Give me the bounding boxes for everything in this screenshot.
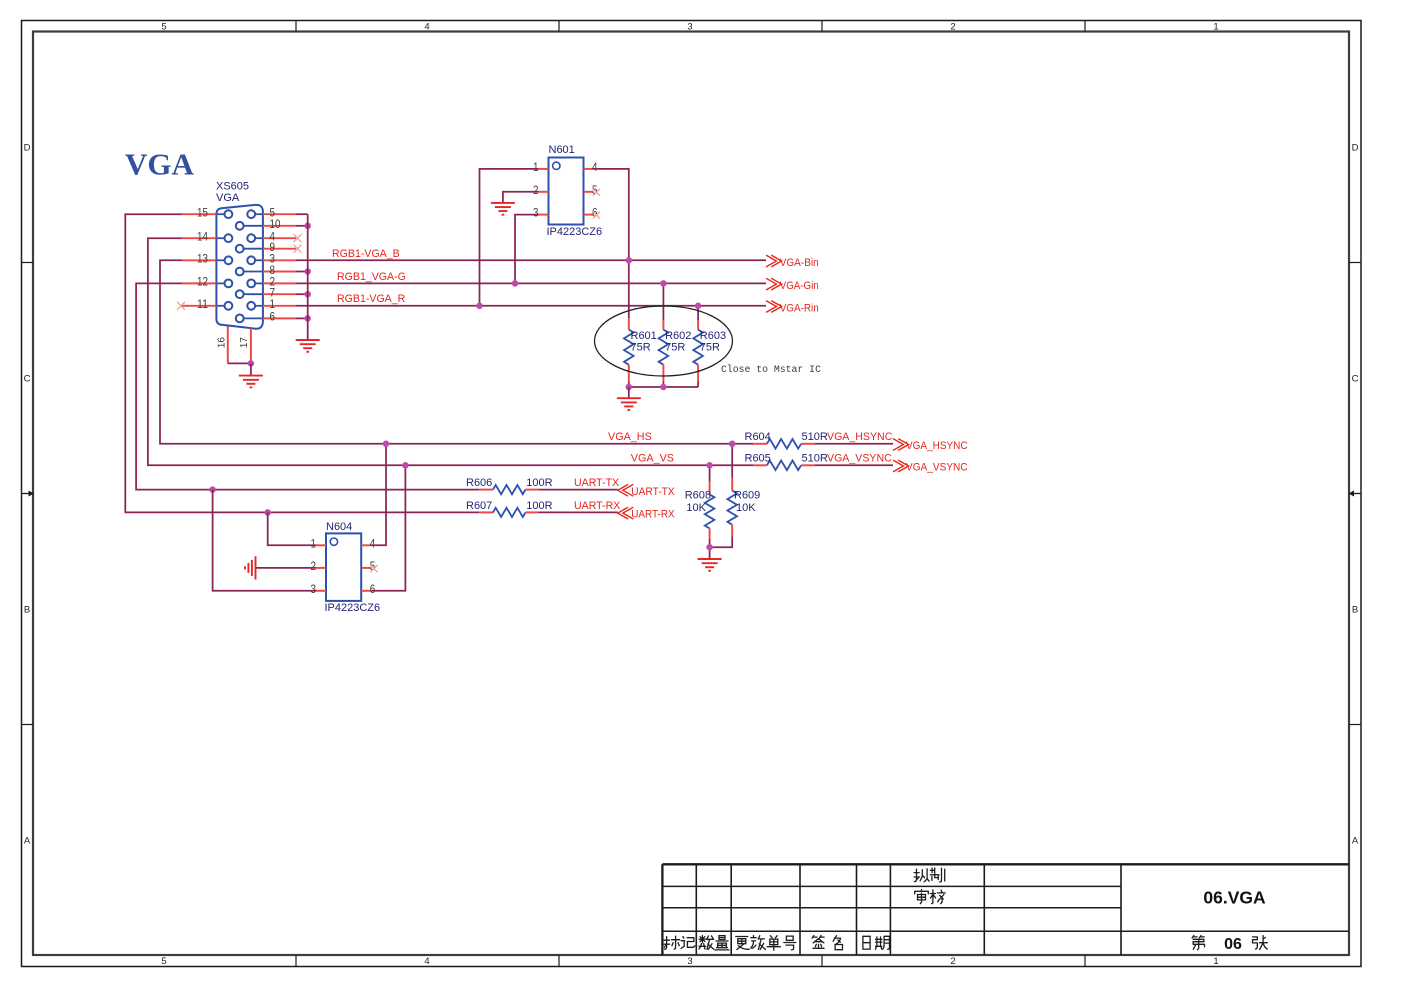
svg-text:UART-TX: UART-TX [574, 477, 619, 489]
svg-text:5: 5 [161, 956, 166, 967]
resistor R609 10K [727, 478, 760, 537]
resistor R606 100R [466, 477, 553, 494]
wire N604 pin3 from UART-TX tap [213, 490, 316, 591]
wire pin8 stub to bus [296, 271, 308, 273]
svg-text:10K: 10K [736, 502, 756, 514]
svg-text:UART-TX: UART-TX [631, 486, 675, 498]
no-connect X on N604 pin 5 [370, 565, 377, 572]
net label VGA_HS [608, 431, 652, 443]
svg-text:VGA: VGA [216, 192, 240, 204]
svg-text:VGA-Rin: VGA-Rin [780, 302, 819, 314]
svg-text:VGA_VSYNC: VGA_VSYNC [906, 462, 968, 474]
junction N604 pin6 on VGA_VS [402, 462, 409, 469]
wire XS605 pin12 to UART-TX net [136, 283, 479, 489]
svg-text:R601: R601 [631, 330, 657, 342]
svg-text:15: 15 [197, 206, 208, 220]
XS605 pin 2 lead [263, 275, 296, 289]
junction R602 on G line [660, 280, 667, 287]
no-connect X on XS605 pin 9 [294, 245, 302, 253]
junction N601 pin4 on B line [626, 257, 633, 264]
svg-text:IP4223CZ6: IP4223CZ6 [325, 602, 381, 614]
wire N601 pin2 to ground [503, 192, 539, 203]
ground at N601 pin2 [491, 203, 515, 215]
wire N604 pin2 to signal ground [256, 567, 317, 569]
wire R608 top from VGA_VS [709, 465, 711, 481]
ground for XS605 pins 5/10/8/7/6 [296, 340, 320, 352]
port UART-RX [618, 507, 675, 521]
junction N604 pin3 tap on UART-TX [209, 486, 216, 493]
junction N601 pin3 on G line [512, 280, 519, 287]
no-connect X on N601 pin 5 [593, 189, 600, 196]
wire R603 top from R line [697, 306, 699, 321]
svg-text:2: 2 [950, 956, 955, 967]
svg-text:Close to Mstar IC: Close to Mstar IC [721, 364, 821, 375]
junction R602 bottom [660, 384, 667, 391]
svg-text:B: B [24, 604, 30, 615]
junction R603 on R line [695, 303, 702, 310]
junction pin8 [304, 268, 311, 275]
ground below R601-R603 [617, 387, 641, 410]
svg-text:75R: 75R [665, 341, 685, 353]
wire N601 pin4 to VGA-Bin net and R601 [594, 169, 629, 318]
svg-text:R604: R604 [745, 431, 771, 443]
XS605 pin 3 lead [263, 252, 296, 266]
svg-text:3: 3 [687, 21, 692, 32]
svg-text:6: 6 [270, 310, 276, 324]
junction R608/R609 common [706, 544, 713, 551]
svg-text:VGA_VSYNC: VGA_VSYNC [827, 453, 892, 465]
junction pin10 [304, 223, 311, 230]
svg-text:06.VGA: 06.VGA [1203, 888, 1266, 908]
svg-text:06: 06 [1224, 936, 1242, 953]
svg-text:VGA_HS: VGA_HS [608, 431, 652, 443]
XS605 pin 4 lead [263, 230, 296, 244]
svg-text:3: 3 [311, 582, 317, 596]
junction R601 bottom [626, 384, 633, 391]
wire N604 pin1 from UART-RX tap [268, 512, 316, 545]
wire R608 bottom to ground [709, 539, 711, 559]
connector XS605 VGA (DB15) [216, 180, 263, 328]
wire pin6 stub to bus [296, 317, 308, 319]
junction pin6 [304, 315, 311, 322]
ground for XS605 shell pins 16/17 [239, 363, 263, 387]
wire pin7 stub to bus [296, 293, 308, 295]
svg-text:D: D [24, 142, 31, 153]
port VGA_HSYNC [893, 439, 968, 453]
junction pin7 [304, 291, 311, 298]
svg-text:N604: N604 [326, 521, 352, 533]
resistor R601 75R [624, 318, 657, 387]
wire RGB1-VGA_R pin1 to VGA-Rin port [296, 305, 766, 307]
svg-text:7: 7 [270, 286, 276, 300]
svg-text:11: 11 [197, 297, 208, 311]
net label VGA_VS [631, 453, 674, 465]
svg-text:C: C [24, 373, 31, 384]
svg-text:3: 3 [687, 956, 692, 967]
net label UART-RX [574, 500, 620, 512]
wire pin16 to pin17 junction [228, 362, 251, 364]
port VGA-Bin [766, 255, 819, 269]
wire N601 pin3 to VGA-Gin net [515, 215, 539, 284]
XS605 pin 10 lead [263, 217, 296, 231]
XS605 pin 13 lead [182, 252, 216, 266]
junction N601 pin1 on R line [476, 303, 483, 310]
wire XS605 pin13 to VGA_HS net [160, 260, 753, 444]
junction R608 on VGA_VS [706, 462, 713, 469]
svg-text:510R: 510R [802, 431, 828, 443]
port VGA-Rin [766, 301, 819, 315]
XS605 pin 1 lead [263, 297, 296, 311]
svg-text:R603: R603 [700, 330, 726, 342]
XS605 pin 7 lead [263, 286, 296, 300]
svg-text:A: A [24, 835, 31, 846]
svg-text:R609: R609 [734, 490, 760, 502]
svg-text:12: 12 [197, 275, 208, 289]
svg-text:1: 1 [1213, 956, 1218, 967]
svg-text:6: 6 [370, 582, 376, 596]
svg-text:510R: 510R [802, 453, 828, 465]
svg-text:100R: 100R [526, 500, 552, 512]
net label RGB1-VGA_B [332, 248, 400, 260]
svg-text:10: 10 [270, 217, 281, 231]
XS605 pin 16 lead [217, 327, 228, 364]
svg-text:5: 5 [161, 21, 166, 32]
svg-text:N601: N601 [549, 144, 575, 156]
svg-text:B: B [1352, 604, 1358, 615]
svg-text:1: 1 [1213, 21, 1218, 32]
svg-text:3: 3 [533, 206, 539, 220]
junction N604 pin4 on VGA_HS [383, 441, 390, 448]
svg-text:2: 2 [533, 183, 539, 197]
svg-text:17: 17 [239, 337, 250, 349]
svg-text:13: 13 [197, 252, 208, 266]
wire R609 top from VGA_HS [731, 444, 733, 478]
wire N601 pin1 to VGA-Rin net [480, 169, 539, 306]
wire pin5 to ground bus [296, 213, 308, 215]
signal ground at N604 pin2 [245, 556, 256, 579]
net label RGB1-VGA_R [337, 293, 406, 305]
XS605 pin 14 lead [182, 230, 216, 244]
resistor R608 10K [685, 482, 715, 539]
svg-text:R605: R605 [745, 453, 771, 465]
port UART-TX [618, 484, 675, 498]
resistor R605 510R [745, 453, 828, 470]
XS605 pin 5 lead [263, 206, 296, 220]
wire RGB1-VGA_B pin3 to VGA-Bin port [296, 259, 766, 261]
XS605 pin 9 lead [263, 240, 296, 254]
svg-text:14: 14 [197, 230, 208, 244]
svg-text:R602: R602 [665, 330, 691, 342]
wire pin10 stub to bus [296, 225, 308, 227]
svg-text:10K: 10K [686, 502, 706, 514]
svg-text:R606: R606 [466, 477, 492, 489]
wire R609 bottom to common [710, 536, 733, 547]
no-connect X on XS605 pin 4 [294, 234, 302, 242]
svg-text:4: 4 [424, 956, 429, 967]
XS605 pin 8 lead [263, 263, 296, 277]
resistor R604 510R [745, 431, 828, 448]
svg-text:VGA-Gin: VGA-Gin [780, 280, 819, 292]
IC N601 IP4223CZ6 [533, 144, 602, 238]
net label RGB1_VGA-G [337, 271, 406, 283]
svg-text:100R: 100R [526, 477, 552, 489]
note Close to Mstar IC [721, 364, 821, 375]
XS605 pin 11 lead [182, 297, 216, 311]
wire common bottom of R601-R603 [629, 386, 698, 388]
wire R605 to VGA_VSYNC port [815, 464, 893, 466]
svg-text:4: 4 [592, 160, 598, 174]
ground bus vertical wire [307, 214, 309, 340]
svg-text:RGB1-VGA_B: RGB1-VGA_B [332, 248, 400, 260]
ground below R608/R609 [698, 559, 722, 571]
svg-text:IP4223CZ6: IP4223CZ6 [547, 226, 603, 238]
svg-text:UART-RX: UART-RX [574, 500, 620, 512]
svg-text:UART-RX: UART-RX [631, 509, 675, 521]
svg-text:C: C [1352, 373, 1359, 384]
svg-text:9: 9 [270, 240, 276, 254]
wire XS605 pin14 to VGA_VS net [148, 238, 753, 465]
net label VGA_HSYNC [827, 431, 893, 443]
svg-text:2: 2 [311, 559, 317, 573]
svg-text:R608: R608 [685, 490, 711, 502]
net label UART-TX [574, 477, 619, 489]
svg-text:VGA-Bin: VGA-Bin [780, 257, 819, 269]
wire R606 to UART-TX port [538, 489, 618, 491]
svg-text:VGA_VS: VGA_VS [631, 453, 674, 465]
no-connect X on XS605 pin 11 [177, 302, 185, 310]
svg-text:RGB1-VGA_R: RGB1-VGA_R [337, 293, 406, 305]
resistor R607 100R [466, 500, 553, 517]
resistor R603 75R [693, 320, 726, 387]
svg-text:RGB1_VGA-G: RGB1_VGA-G [337, 271, 406, 283]
svg-text:R607: R607 [466, 500, 492, 512]
svg-text:D: D [1352, 142, 1359, 153]
svg-text:75R: 75R [700, 341, 720, 353]
svg-text:2: 2 [950, 21, 955, 32]
wire XS605 pin15 to UART-RX net [125, 214, 479, 512]
XS605 pin 12 lead [182, 275, 216, 289]
XS605 pin 17 lead [239, 328, 251, 363]
junction R609 on VGA_HS [729, 441, 736, 448]
XS605 pin 6 lead [263, 310, 296, 324]
junction at shell ground [248, 360, 255, 367]
svg-text:1: 1 [311, 536, 317, 550]
IC N604 IP4223CZ6 [311, 521, 381, 614]
svg-text:A: A [1352, 835, 1359, 846]
wire R602 top from G line [662, 283, 664, 320]
port VGA-Gin [766, 278, 819, 292]
svg-text:VGA_HSYNC: VGA_HSYNC [906, 440, 968, 452]
svg-text:75R: 75R [631, 341, 651, 353]
svg-text:8: 8 [270, 263, 276, 277]
svg-text:16: 16 [217, 337, 228, 349]
wire RGB1_VGA-G pin2 to VGA-Gin port [296, 282, 766, 284]
wire N604 pin6 to VGA_VS [371, 465, 405, 591]
svg-text:XS605: XS605 [216, 180, 249, 192]
net label VGA_VSYNC [827, 453, 892, 465]
svg-text:VGA_HSYNC: VGA_HSYNC [827, 431, 893, 443]
junction N604 pin1 tap on UART-RX [264, 509, 271, 516]
resistor R602 75R [659, 320, 692, 387]
svg-text:1: 1 [533, 160, 539, 174]
svg-text:VGA: VGA [125, 147, 195, 182]
svg-text:4: 4 [424, 21, 429, 32]
wire R607 to UART-RX port [538, 511, 618, 513]
svg-text:4: 4 [370, 536, 376, 550]
XS605 pin 15 lead [182, 206, 216, 220]
wire N604 pin4 to VGA_HS [371, 444, 386, 546]
wire R604 to VGA_HSYNC port [815, 443, 893, 445]
no-connect X on N601 pin 6 [593, 212, 600, 219]
emphasis ellipse around R601-R603 [595, 306, 733, 376]
port VGA_VSYNC [893, 460, 968, 474]
